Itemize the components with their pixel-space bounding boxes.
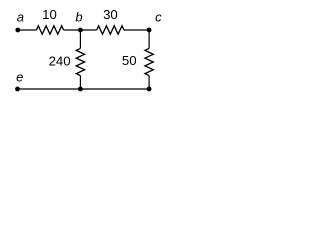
wire node b down to R3: [79, 30, 81, 48]
node c: [147, 28, 152, 33]
junction below b: [78, 87, 83, 92]
svg-text:30: 30: [103, 7, 118, 22]
svg-text:240: 240: [49, 53, 71, 68]
node b: [78, 28, 83, 33]
bottom rail wire e to below c: [18, 88, 150, 90]
junction below c: [147, 87, 152, 92]
svg-text:50: 50: [122, 53, 137, 68]
svg-text:a: a: [17, 10, 24, 25]
resistor R1 10: [36, 26, 63, 34]
wire a to R1: [18, 29, 37, 31]
resistor R4 50: [145, 48, 153, 75]
svg-text:b: b: [75, 10, 82, 25]
resistor R3 240: [76, 48, 84, 75]
svg-text:e: e: [16, 69, 23, 84]
wire node b to R2: [80, 29, 96, 31]
wire node c down to R4: [148, 30, 150, 48]
node a: [15, 28, 20, 33]
resistor R2 30: [97, 26, 124, 34]
wire R4 to bottom rail: [148, 76, 150, 89]
wire R1 to node b: [64, 29, 81, 31]
node e: [15, 87, 20, 92]
svg-text:10: 10: [42, 7, 57, 22]
wire R2 to node c: [124, 29, 149, 31]
svg-text:c: c: [155, 9, 162, 24]
wire R3 to bottom rail: [79, 76, 81, 89]
